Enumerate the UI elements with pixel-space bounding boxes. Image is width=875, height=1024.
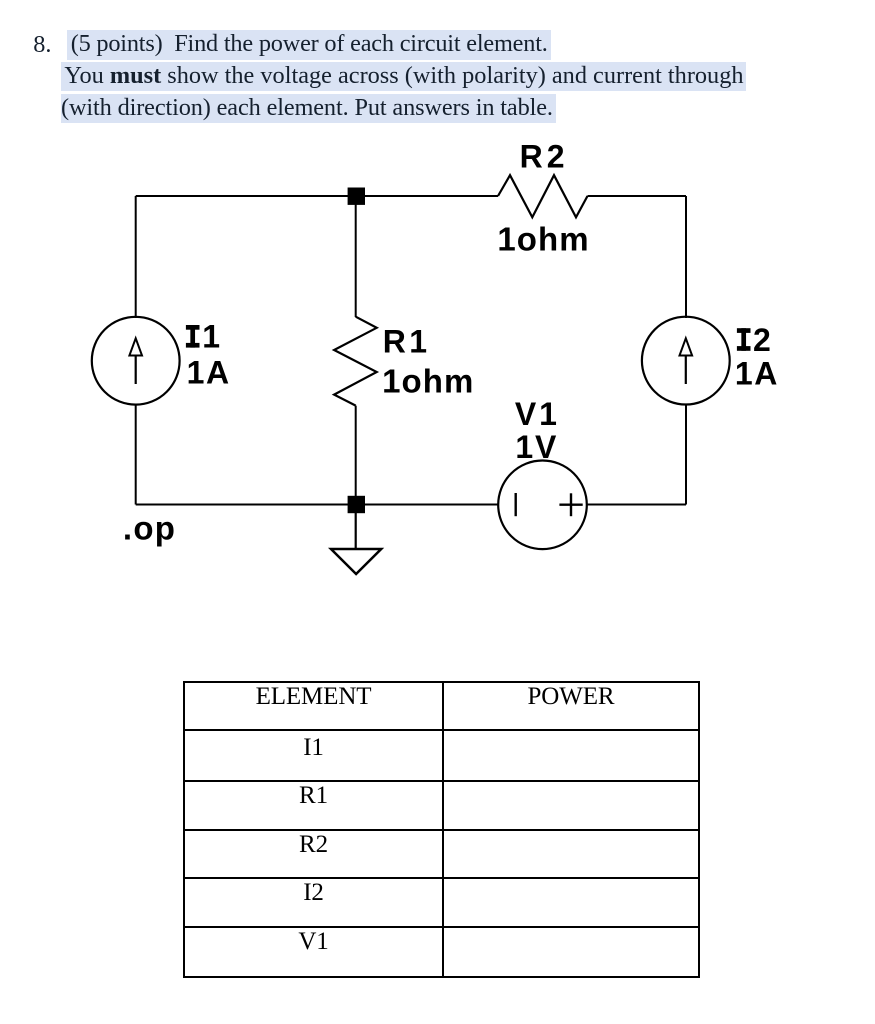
resistor R2 [498,175,588,217]
wire top-left segment [136,195,498,197]
problem number [33,31,51,59]
svg-text:1ohm: 1ohm [497,221,588,258]
node junction square bottom [348,496,365,513]
node junction square top [348,188,365,205]
resistor R1 [334,317,377,406]
svg-text:.op: .op [123,510,175,547]
wire right vertical upper [685,196,687,318]
wire top-right segment [588,195,687,197]
wire left vertical lower [135,404,137,505]
svg-text:1A: 1A [187,355,230,391]
ground [331,549,381,574]
answer table [183,681,700,978]
wire left vertical upper [135,196,137,318]
svg-text:1: 1 [202,319,220,355]
paragraph line 1 [67,31,550,59]
current source I2 name label [737,322,771,358]
paragraph line 3 [61,94,556,122]
wire right vertical lower [685,404,687,505]
svg-text:1V: 1V [515,429,557,465]
wire bottom-left segment [136,504,498,506]
wire middle vertical lower [355,406,357,505]
svg-text:1A: 1A [735,356,778,392]
svg-text:R1: R1 [383,323,427,359]
current source I2 [642,317,730,405]
svg-text:1ohm: 1ohm [382,362,473,399]
paragraph line 2 [61,62,746,90]
current source I1 [92,317,180,405]
voltage source V1 [498,461,587,550]
ground stem wire [355,513,357,549]
wire middle vertical upper [355,196,357,317]
svg-text:V1: V1 [515,396,557,432]
svg-text:2: 2 [753,322,771,358]
wire bottom-right segment [587,504,686,506]
svg-text:R2: R2 [520,139,565,175]
current source I1 name label [186,319,220,355]
